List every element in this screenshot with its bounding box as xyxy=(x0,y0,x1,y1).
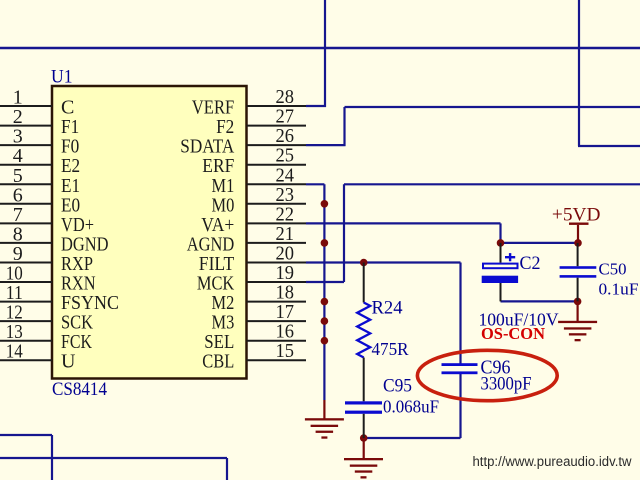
svg-text:http://www.pureaudio.idv.tw: http://www.pureaudio.idv.tw xyxy=(473,454,632,469)
svg-text:3300pF: 3300pF xyxy=(481,374,532,395)
pin 26 wire xyxy=(247,144,307,146)
svg-text:U: U xyxy=(61,351,76,373)
pin 4 wire xyxy=(0,164,52,166)
power +5VD bar xyxy=(569,223,589,225)
pin 19 wire xyxy=(247,281,307,283)
junction pin18 xyxy=(321,298,329,306)
wire VA+ net horizontal xyxy=(306,222,501,224)
pin 1 wire xyxy=(0,105,52,107)
pin 7 wire xyxy=(0,222,52,224)
wire pin28 extension to vertical xyxy=(306,105,326,107)
pin 27 wire xyxy=(247,125,307,127)
svg-text:C95: C95 xyxy=(383,376,412,397)
svg-text:C50: C50 xyxy=(599,260,627,279)
pin 15 wire xyxy=(247,359,307,361)
svg-text:R24: R24 xyxy=(372,298,403,319)
ground stub C95/C96 xyxy=(363,438,365,459)
junction FILT/R24 xyxy=(360,259,368,267)
capacitor C2 bottom plate (solid) xyxy=(482,276,518,283)
pin 3 wire xyxy=(0,144,52,146)
capacitor C95 bottom lead xyxy=(363,414,365,438)
capacitor C50 bottom lead xyxy=(577,278,579,302)
pin 16 wire xyxy=(247,340,307,342)
pin 13 wire xyxy=(0,340,52,342)
wire SDATA net horizontal to right edge xyxy=(345,106,640,108)
svg-text:CS8414: CS8414 xyxy=(52,380,107,400)
svg-text:14: 14 xyxy=(6,341,23,363)
power +5VD stub xyxy=(577,225,579,243)
wire C95 bottom to C96 bottom xyxy=(364,437,461,439)
wire MCK net: pin19 extension xyxy=(306,281,344,283)
pin 6 wire xyxy=(0,203,52,205)
capacitor C96 plates xyxy=(442,363,478,366)
pin 23 wire xyxy=(247,203,307,205)
pin 17 wire xyxy=(247,320,307,322)
pin 9 wire xyxy=(0,262,52,264)
capacitor C50 plates xyxy=(560,266,597,269)
svg-text:15: 15 xyxy=(276,340,295,362)
pin 5 wire xyxy=(0,183,52,185)
resistor R24 bottom lead xyxy=(363,358,365,402)
resistor R24 top lead xyxy=(363,263,365,303)
pin 21 wire xyxy=(247,242,307,244)
junction pin21 xyxy=(321,239,329,247)
svg-text:OS-CON: OS-CON xyxy=(481,324,546,343)
pin 11 wire xyxy=(0,301,52,303)
pin 8 wire xyxy=(0,242,52,244)
capacitor C95 plates xyxy=(345,401,382,404)
ground C95/C96 xyxy=(344,458,383,479)
wire bottom-left lower L xyxy=(0,457,227,459)
junction C2 top xyxy=(497,239,505,247)
wire pin24 M1 extension xyxy=(306,183,324,185)
svg-text:CBL: CBL xyxy=(202,351,234,373)
pin 14 wire xyxy=(0,359,52,361)
wire bottom-left upper L xyxy=(0,434,52,436)
wire AGND-net vertical (pins 24,23,21,18,17,16) xyxy=(323,184,325,400)
junction pin17 xyxy=(321,317,329,325)
wire vertical at right (net to lower right) xyxy=(578,0,580,146)
ground stub AGND net xyxy=(323,400,325,419)
wire C96 bottom lead drop xyxy=(459,374,461,438)
svg-text:0.1uF: 0.1uF xyxy=(599,280,639,299)
wire MCK net horizontal to right edge xyxy=(344,183,640,185)
capacitor C2 top lead xyxy=(500,243,502,263)
wire FILT net vertical drop to C96 xyxy=(459,263,461,364)
wire vertical drop to pin 28 (VERF net) xyxy=(324,0,326,107)
junction pin16 xyxy=(321,337,329,345)
capacitor C2 plus sign xyxy=(505,256,515,258)
ground stub C50/C2 xyxy=(576,301,578,321)
junction C95 bottom xyxy=(360,434,368,442)
pin 20 wire xyxy=(247,262,307,264)
ground AGND net xyxy=(305,418,344,438)
wire pin26 SDATA extension xyxy=(306,144,346,146)
wire horizontal from right vertical going right xyxy=(578,145,640,147)
svg-text:C2: C2 xyxy=(520,253,541,274)
svg-text:U1: U1 xyxy=(51,67,73,88)
pin 28 wire xyxy=(247,105,307,107)
junction pin23 xyxy=(321,200,329,208)
pin 22 wire xyxy=(247,222,307,224)
pin 24 wire xyxy=(247,183,307,185)
pin 2 wire xyxy=(0,125,52,127)
wire MCK net vertical riser xyxy=(343,184,345,282)
pin 10 wire xyxy=(0,281,52,283)
wire FILT net horizontal xyxy=(306,261,461,263)
svg-text:0.068uF: 0.068uF xyxy=(383,397,439,417)
junction C50 bottom xyxy=(574,298,582,306)
pin 25 wire xyxy=(247,164,307,166)
wire C2 bottom to C50 bottom xyxy=(501,300,578,302)
svg-text:+5VD: +5VD xyxy=(552,205,601,226)
wire top horizontal bus xyxy=(0,47,640,50)
capacitor C2 bottom lead xyxy=(500,283,502,301)
pin 12 wire xyxy=(0,320,52,322)
wire VA+ net vertical drop to C2 xyxy=(499,223,501,243)
wire VA+ net to +5VD xyxy=(501,242,579,244)
resistor R24 zigzag xyxy=(357,303,370,358)
IC U1 CS8414 body xyxy=(52,86,247,379)
annotation red ellipse around C96 xyxy=(417,350,557,400)
ground C50/C2 xyxy=(558,321,597,342)
pin 18 wire xyxy=(247,301,307,303)
capacitor C2 top plate (hollow) xyxy=(483,264,518,269)
svg-text:475R: 475R xyxy=(372,339,409,359)
junction +5VD xyxy=(574,239,582,247)
wire SDATA net vertical riser xyxy=(343,107,345,146)
capacitor C50 top lead xyxy=(577,243,579,266)
